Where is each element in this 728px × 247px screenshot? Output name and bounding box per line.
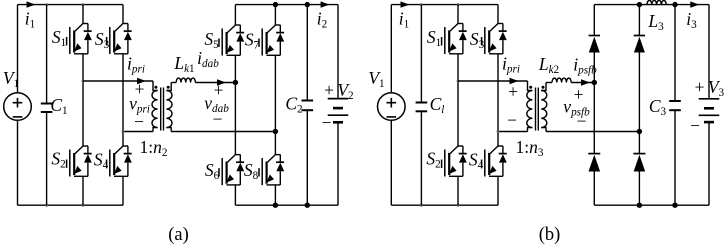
wire C3 branch upper	[674, 5, 676, 101]
wire rect left leg mid lower	[593, 83, 595, 154]
transformer secondary winding (b)	[541, 91, 547, 128]
wire leg B middle (a)	[122, 54, 124, 146]
transistor S2	[67, 146, 92, 177]
junction top rail / leg A (a)	[82, 3, 85, 6]
svg-text:+: +	[574, 85, 584, 105]
current arrow i1 (a)	[27, 1, 36, 7]
wire bottom rail left bridge (a)	[18, 204, 124, 206]
battery V3	[699, 99, 720, 122]
diode D3	[634, 36, 645, 53]
wire C3 branch lower	[674, 110, 676, 205]
wire primary top lead (a)	[153, 81, 158, 91]
wire left rail (a) lower	[17, 120, 19, 205]
wire Lk1 to bridge2 (a)	[195, 82, 235, 84]
current arrow idab	[217, 79, 226, 85]
wire bottom rail right bridge (a)	[235, 204, 338, 206]
svg-text:−: −	[507, 110, 517, 130]
wire bridge midpoint B to primary (b)	[498, 131, 528, 133]
wire leg B lower (a)	[122, 176, 124, 205]
capacitor Cl	[416, 103, 428, 112]
wire top rail right bridge (a)	[235, 4, 338, 6]
diode D2	[588, 154, 600, 172]
wire top rail rectifier (b)	[594, 4, 709, 6]
transistor S3	[107, 24, 132, 55]
wire secondary top to Lk2 (b)	[546, 82, 552, 84]
inductor Lk1	[176, 78, 195, 82]
polarity dot secondary (b)	[542, 86, 545, 89]
wire V3 branch lower	[708, 122, 710, 205]
inductor Lk2	[552, 78, 571, 82]
wire secondary top lead (a)	[166, 83, 171, 91]
wire leg B upper (b)	[497, 5, 499, 24]
polarity dot primary (b)	[529, 86, 532, 89]
wire bottom rail rectifier (b)	[594, 204, 709, 206]
junction bottom rail / leg A (b)	[457, 204, 460, 207]
wire secondary bottom lead (b)	[541, 128, 546, 132]
wire V2 branch upper	[337, 5, 339, 99]
wire leg B2 middle (a)	[274, 55, 276, 154]
current arrow ipri (a)	[137, 78, 146, 84]
junction leg B midpoint (b)	[497, 130, 500, 133]
wire Lk2 to rectifier (b)	[571, 82, 594, 84]
transistor S8	[259, 155, 284, 186]
wire leg B2 lower (a)	[274, 185, 276, 205]
current arrow ipsfb	[581, 79, 590, 85]
current arrow i1 (b)	[401, 1, 410, 7]
wire leg B lower (b)	[497, 176, 499, 205]
transformer secondary winding (a)	[166, 91, 172, 128]
wire leg A upper (a)	[82, 5, 84, 24]
junction rectifier left leg midpoint	[592, 80, 597, 85]
wire top rail bridge (b)	[391, 4, 498, 6]
battery V2	[328, 99, 349, 123]
svg-text:+: +	[324, 80, 334, 100]
transformer core line 1 (b)	[535, 88, 537, 131]
transistor S4b	[482, 146, 507, 177]
wire C2 branch lower	[306, 110, 308, 205]
transformer core line 2 (a)	[163, 88, 165, 131]
svg-text:+: +	[508, 82, 518, 102]
junction bottom rail / C1 (a)	[45, 204, 48, 207]
wire rect left leg lower	[593, 172, 595, 206]
transformer primary winding (a)	[152, 91, 158, 128]
transistor S1	[67, 24, 92, 55]
wire rect right leg upper	[638, 5, 640, 36]
transistor S4	[107, 146, 132, 177]
wire primary top lead (b)	[528, 81, 533, 91]
diode D4	[633, 154, 645, 172]
junction rectifier right leg midpoint	[637, 129, 642, 134]
wire rect right leg lower	[638, 172, 640, 206]
wire V2 branch lower	[337, 122, 339, 205]
wire left rail (b) upper	[390, 5, 392, 93]
transformer primary winding (b)	[527, 91, 533, 128]
wire C1 branch lower (a)	[46, 112, 48, 205]
junction top rail / Cl (b)	[420, 3, 423, 6]
junction leg A midpoint (b)	[457, 80, 460, 83]
junction bridge2 leg A midpoint	[233, 80, 238, 85]
wire secondary top lead (b)	[541, 83, 546, 91]
wire Cl branch upper (b)	[420, 5, 422, 103]
wire bridge midpoint A to primary (b)	[458, 80, 528, 82]
wire secondary bottom lead (a)	[166, 128, 171, 132]
junction bottom rail / leg B2 (a)	[273, 203, 278, 208]
wire leg A middle (b)	[457, 54, 459, 146]
junction leg B midpoint (a)	[122, 130, 125, 133]
svg-text:−: −	[322, 113, 332, 133]
wire leg A2 upper (a)	[234, 5, 236, 25]
transistor S1b	[442, 24, 467, 55]
wire bridge midpoint A to primary (a)	[83, 80, 153, 82]
junction bottom rail / C2 (a)	[305, 203, 310, 208]
wire leg A lower (a)	[82, 176, 84, 205]
transistor S2b	[442, 146, 467, 177]
junction top rail / C3 (b)	[672, 2, 677, 7]
svg-text:(a): (a)	[168, 225, 189, 245]
wire primary bottom lead (b)	[528, 128, 533, 132]
wire primary bottom lead (a)	[153, 128, 158, 132]
wire secondary bottom to bridge2 (a)	[171, 131, 275, 133]
wire rect right leg mid	[638, 53, 640, 154]
wire leg B2 upper (a)	[274, 5, 276, 25]
junction bottom rail / C3 (b)	[672, 203, 677, 208]
junction top rail / leg A (b)	[457, 3, 460, 6]
voltage source V1 (b)	[378, 93, 406, 121]
wire rect left leg upper	[593, 5, 595, 36]
svg-text:−: −	[690, 116, 700, 136]
wire C2 branch upper	[306, 5, 308, 101]
wire V3 branch upper	[708, 5, 710, 99]
wire leg A upper (b)	[457, 5, 459, 24]
junction bottom rail / Cl (b)	[420, 204, 423, 207]
svg-text:−: −	[213, 109, 223, 129]
wire bridge midpoint B to primary (a)	[123, 131, 153, 133]
transistor S5	[219, 25, 244, 56]
junction top rail / right leg (b)	[637, 2, 642, 7]
junction top rail / C2 (a)	[305, 2, 310, 7]
wire secondary top to Lk1 (a)	[171, 82, 176, 84]
wire left rail (b) lower	[390, 120, 392, 205]
wire C1 branch upper (a)	[46, 5, 48, 104]
wire left rail (a) upper	[17, 5, 19, 93]
wire leg A lower (b)	[457, 176, 459, 205]
capacitor C2	[302, 101, 314, 111]
svg-text:−: −	[134, 112, 144, 132]
transistor S3b	[482, 24, 507, 55]
wire leg A2 middle (a)	[234, 55, 236, 154]
current arrow ipri (b)	[510, 78, 519, 84]
junction bottom rail / leg A (a)	[82, 204, 85, 207]
voltage source V1 (a)	[4, 93, 32, 121]
capacitor C1	[41, 104, 53, 113]
wire bottom rail bridge (b)	[391, 204, 498, 206]
svg-text:+: +	[214, 80, 224, 100]
polarity dot primary (a)	[154, 86, 157, 89]
junction bottom rail / right leg (b)	[637, 203, 642, 208]
junction leg A midpoint (a)	[82, 80, 85, 83]
polarity dot secondary (a)	[167, 86, 170, 89]
svg-text:+: +	[695, 77, 705, 97]
wire leg B middle (b)	[497, 54, 499, 146]
wire top rail left bridge (a)	[18, 4, 124, 6]
wire secondary bottom to rectifier (b)	[546, 131, 639, 133]
wire leg B upper (a)	[122, 5, 124, 24]
current arrow i3	[690, 1, 699, 7]
svg-text:−: −	[577, 111, 587, 131]
transformer core line 2 (b)	[537, 88, 539, 131]
inductor L3	[647, 0, 666, 4]
junction bridge2 leg B midpoint	[273, 129, 278, 134]
junction top rail / C1 (a)	[45, 3, 48, 6]
svg-text:(b): (b)	[539, 225, 561, 245]
wire leg A2 lower (a)	[234, 185, 236, 205]
diode D1	[589, 36, 600, 53]
transformer core line 1 (a)	[160, 88, 162, 131]
wire Cl branch lower (b)	[420, 111, 422, 205]
wire leg A middle (a)	[82, 54, 84, 146]
current arrow i2	[321, 1, 330, 7]
junction top rail / leg B2 (a)	[273, 2, 278, 7]
transistor S6	[219, 155, 244, 186]
capacitor C3	[669, 101, 681, 110]
wire rect left leg mid upper	[593, 53, 595, 83]
transistor S7	[259, 25, 284, 56]
